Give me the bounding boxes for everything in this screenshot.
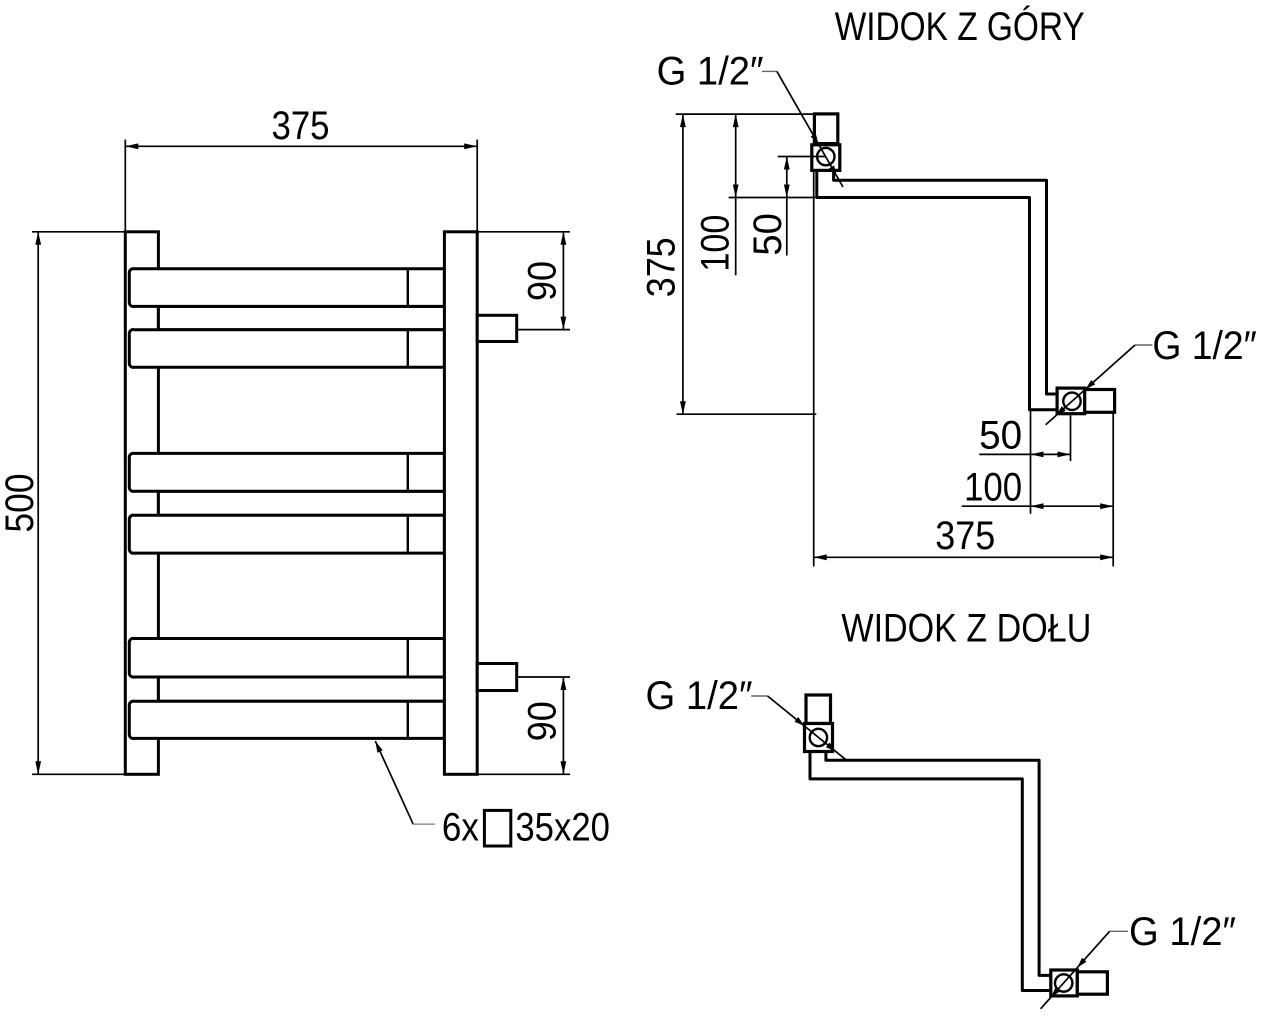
dim 375 bottom-left ext	[677, 413, 817, 415]
svg-text:90: 90	[521, 261, 565, 301]
dim 375 line	[125, 145, 477, 147]
cross strip 3 (flat bar seen edge-on)	[158, 677, 445, 701]
svg-text:G 1/2″: G 1/2″	[646, 674, 753, 718]
horizontal bar 4 (35x20 profile)	[129, 515, 444, 553]
dim 100 vertical line	[735, 114, 737, 275]
dim 100 bottom ext	[729, 197, 816, 199]
label square symbol	[484, 810, 510, 846]
cross strip 1 (flat bar seen edge-on)	[158, 306, 445, 329]
dim 90 bottom arrows	[561, 677, 567, 690]
dim 375 vertical line	[682, 114, 684, 414]
label G1/2 top-left leader	[762, 70, 777, 72]
ext line valve-centre	[1070, 416, 1072, 462]
valve G1/2 bottom-view top-left: thread nipple	[806, 695, 831, 724]
dim 50 bottom line	[979, 453, 1070, 455]
svg-text:100: 100	[694, 215, 738, 272]
cross strip 2 (flat bar seen edge-on)	[158, 491, 445, 515]
label G1/2 bottom-view top-left leader arrows	[795, 717, 805, 726]
dim 375 bottom line	[814, 556, 1113, 558]
valve G1/2 bottom-right: body	[1057, 388, 1085, 414]
top view pipe outline	[817, 170, 1057, 409]
svg-text:WIDOK Z DOŁU: WIDOK Z DOŁU	[841, 607, 1091, 651]
dim 375 extension lines	[124, 140, 126, 232]
valve G1/2 top-left: thread nipple	[814, 114, 837, 144]
dim 90 bottom extension lines	[517, 676, 570, 678]
dim 50 vertical line	[786, 157, 788, 256]
top ext line (375/100)	[676, 113, 839, 115]
valve G1/2 bottom-right: circle	[1063, 393, 1080, 410]
svg-text:375: 375	[272, 104, 330, 148]
label G1/2 bottom-view top-left leader	[751, 695, 767, 697]
ext line nipple-right	[1112, 414, 1114, 567]
dim 50 bottom arrows	[1031, 452, 1044, 458]
dim 375 vertical arrows	[680, 114, 686, 127]
label G1/2 bottom-view bottom-right leader arrows	[1077, 958, 1086, 968]
dim 500 arrows	[35, 232, 41, 245]
valve G1/2 top-left: circle	[817, 148, 834, 165]
horizontal bar 3 (35x20 profile)	[129, 453, 444, 491]
horizontal bar 5 (35x20 profile)	[129, 638, 444, 677]
valve G1/2 bottom-right: thread nipple	[1085, 390, 1115, 413]
svg-text:6x: 6x	[442, 805, 479, 849]
horizontal bar 6 (35x20 profile)	[129, 701, 444, 738]
leader line for bar label	[375, 741, 413, 824]
valve G1/2 bottom-view top-left: circle	[810, 729, 827, 746]
dim 500 line	[37, 232, 39, 775]
dim 90 top line	[562, 232, 564, 330]
svg-text:G 1/2″: G 1/2″	[657, 50, 764, 94]
dim 100 bottom line	[962, 505, 1113, 507]
svg-text:G 1/2″: G 1/2″	[1129, 910, 1236, 954]
dim 500 extension lines	[32, 231, 125, 233]
dim 90 top extension lines	[477, 231, 570, 233]
dim 50 vertical arrows	[784, 157, 790, 170]
svg-text:375: 375	[639, 237, 683, 297]
svg-text:50: 50	[746, 213, 790, 256]
svg-text:90: 90	[521, 701, 565, 741]
horizontal bar 1 (35x20 profile)	[129, 269, 444, 307]
dim 90 bottom line	[562, 677, 564, 774]
label G1/2 bottom-view bottom-right leader	[1110, 930, 1128, 932]
svg-text:35x20: 35x20	[515, 805, 610, 849]
bottom view pipe outline	[810, 752, 1051, 991]
valve G1/2 bottom-view bottom-right: thread nipple	[1077, 972, 1107, 994]
label G1/2 bottom-right leader	[1135, 344, 1153, 346]
ext line pipe-left	[1030, 411, 1032, 514]
valve G1/2 bottom-view bottom-right: circle	[1055, 974, 1072, 991]
dim 100 vertical arrows	[733, 114, 739, 127]
dim 90 top arrows	[561, 232, 567, 245]
long extension line left	[813, 172, 815, 567]
upper connection stub (right)	[477, 315, 517, 341]
svg-text:375: 375	[935, 514, 995, 558]
left collector rail	[125, 232, 158, 775]
dim 375 arrows	[125, 143, 138, 149]
svg-text:100: 100	[964, 465, 1022, 509]
lower connection stub (right)	[477, 664, 517, 691]
valve G1/2 top-left: body	[812, 145, 840, 171]
svg-text:WIDOK Z GÓRY: WIDOK Z GÓRY	[835, 4, 1085, 49]
leader arrow	[375, 741, 382, 753]
svg-text:500: 500	[0, 474, 42, 533]
valve G1/2 bottom-view bottom-right: body	[1051, 970, 1078, 996]
horizontal bar 2 (35x20 profile)	[129, 330, 444, 368]
right collector rail	[444, 232, 477, 775]
label G1/2 top-left leader arrows	[811, 133, 819, 144]
dim 100 bottom arrows	[1031, 503, 1044, 509]
dim 50 top ext	[778, 156, 826, 158]
svg-text:50: 50	[979, 414, 1022, 458]
label G1/2 bottom-right leader arrows	[1086, 380, 1096, 389]
svg-text:G 1/2″: G 1/2″	[1152, 324, 1257, 368]
dim 375 bottom arrows	[814, 554, 827, 560]
valve G1/2 bottom-view top-left: body	[805, 724, 833, 752]
